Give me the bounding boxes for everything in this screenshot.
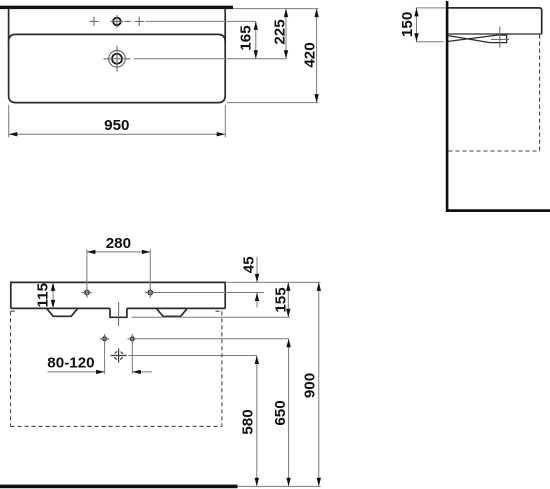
- side view basin bottom front edge: [448, 33, 542, 35]
- dimension 150 bottom extension line: [416, 41, 444, 43]
- top view tap hole circle: [113, 18, 121, 26]
- top view dash between tap hole and plus: [125, 20, 132, 22]
- front view right foot: [156, 308, 187, 316]
- dimension 150 top extension line: [416, 7, 446, 9]
- dimension 280 arrow left: [87, 250, 96, 254]
- svg-text:950: 950: [104, 117, 129, 134]
- dimension 225 arrow down: [284, 50, 288, 59]
- dimension 650 line: [288, 339, 290, 486]
- top view drain crosshair: [104, 46, 131, 72]
- dimension 900 arrow up: [317, 282, 321, 291]
- front view left foot: [47, 308, 78, 316]
- dimension 165 arrow down: [254, 50, 258, 59]
- dimension 165 line: [255, 21, 257, 58]
- dimension 115 arrow up: [51, 282, 55, 291]
- dimension 45 arrow down: [255, 274, 259, 283]
- top view drain extension line: [134, 58, 287, 60]
- dimension 950 arrow right: [217, 132, 226, 136]
- front view drain centerline: [118, 302, 120, 326]
- top view drain outer circle: [109, 51, 126, 68]
- dimension 115 line: [52, 282, 54, 308]
- svg-text:420: 420: [301, 42, 318, 67]
- dimension 950 left extension line: [8, 105, 10, 138]
- side view basin top and right edge: [448, 8, 541, 34]
- dimension 950 arrow left: [9, 132, 17, 136]
- svg-text:225: 225: [271, 19, 288, 45]
- dimension 225 arrow up: [284, 9, 288, 18]
- dimension 115 arrow down: [51, 300, 55, 309]
- svg-text:45: 45: [240, 256, 257, 273]
- dimension 650 arrow up: [286, 339, 290, 348]
- side view dashed clearance right edge: [539, 35, 541, 152]
- side view basin underside rising diagonal: [448, 35, 497, 41]
- front view tap hole reference line: [156, 292, 265, 294]
- top view basin outer outline: [9, 9, 226, 103]
- front view dashed clearance top left stub: [11, 310, 18, 312]
- dimension 150 line: [416, 8, 418, 42]
- dimension 580 line: [256, 356, 258, 487]
- side view floor line: [446, 209, 550, 212]
- svg-text:580: 580: [239, 409, 256, 434]
- svg-text:650: 650: [272, 400, 289, 425]
- front view drain symbol crosshair: [111, 348, 127, 362]
- top view bottom edge extension line: [227, 102, 319, 104]
- front view dashed clearance top right stub: [216, 310, 222, 312]
- side view dashed clearance bottom edge: [448, 150, 539, 152]
- top view bowl rim line: [9, 34, 226, 41]
- svg-text:150: 150: [399, 12, 416, 37]
- front view left tap hole mark: [85, 290, 89, 294]
- dimension 45 lower line: [256, 293, 258, 308]
- svg-text:115: 115: [35, 282, 52, 307]
- top view tap hole extension line: [146, 20, 256, 22]
- front view basin top extension line: [227, 281, 321, 283]
- dimension 280 left extension line: [86, 249, 88, 294]
- front view dashed clearance bottom edge: [11, 425, 222, 427]
- dimension 950 right extension line: [224, 105, 226, 138]
- svg-text:155: 155: [272, 287, 289, 313]
- dimension 45 arrow up: [255, 293, 259, 302]
- side view wall line: [446, 1, 449, 211]
- front view dashed clearance right edge: [221, 311, 223, 426]
- top view left alternative tap hole plus: [89, 17, 98, 26]
- front view right mounting hole: [130, 337, 134, 341]
- dimension 225 line: [285, 9, 287, 59]
- svg-text:280: 280: [106, 235, 131, 252]
- dimension 950 line: [9, 133, 226, 135]
- front view drain symbol dashed circle: [114, 351, 123, 360]
- dimension 80-120 arrow left: [132, 370, 141, 374]
- dimension 80-120 left extension line: [104, 344, 106, 374]
- side view basin underside falling diagonal: [448, 36, 490, 43]
- dimension 80-120 left line: [48, 371, 105, 373]
- top view right alternative tap hole plus: [135, 17, 144, 26]
- front view mounting holes extension line: [138, 338, 289, 340]
- dimension 280 line: [87, 251, 150, 253]
- top view drain inner circle: [112, 54, 122, 64]
- front view floor extension line: [238, 485, 321, 487]
- dimension 150 arrow down: [414, 33, 418, 42]
- dimension 80-120 right extension line: [131, 344, 133, 374]
- dimension 420 arrow up: [314, 9, 318, 18]
- svg-text:165: 165: [238, 25, 255, 51]
- front view left mounting hole: [103, 337, 107, 341]
- side view drain crosshair: [491, 27, 509, 48]
- svg-text:900: 900: [301, 373, 318, 398]
- dimension 80-120 arrow right: [96, 370, 105, 374]
- side view drain pocket: [490, 34, 507, 42]
- dimension 420 arrow down: [314, 94, 318, 103]
- dimension 420 line: [316, 9, 318, 103]
- dimension 165 arrow up: [254, 21, 258, 30]
- top view wall bar: [0, 6, 233, 9]
- dimension 580 arrow up: [255, 356, 259, 365]
- dimension 900 arrow down: [317, 478, 321, 487]
- top view top reference extension line: [233, 8, 319, 10]
- svg-text:80-120: 80-120: [47, 355, 94, 372]
- front view dashed clearance left edge: [10, 311, 12, 426]
- dimension 155 arrow up: [286, 282, 290, 291]
- dimension 150 arrow up: [414, 8, 418, 17]
- front view drain extension line: [129, 355, 257, 357]
- top view tap hole crosshair: [111, 15, 124, 28]
- dimension 280 arrow right: [142, 250, 151, 254]
- dimension 80-120 right line: [132, 371, 152, 373]
- dimension 45 upper line: [256, 257, 258, 283]
- dimension 155 arrow down: [286, 309, 290, 318]
- front view basin outline: [11, 282, 225, 308]
- dimension 650 arrow down: [286, 478, 290, 487]
- dimension 580 arrow down: [255, 478, 259, 487]
- front view floor bar: [0, 485, 238, 489]
- dimension 155 line: [287, 282, 289, 317]
- front view drain pocket: [110, 308, 127, 317]
- dimension 280 right extension line: [149, 249, 151, 294]
- front view pocket bottom extension line: [132, 316, 291, 318]
- front view right tap hole mark: [148, 290, 152, 294]
- dimension 900 line: [318, 282, 320, 486]
